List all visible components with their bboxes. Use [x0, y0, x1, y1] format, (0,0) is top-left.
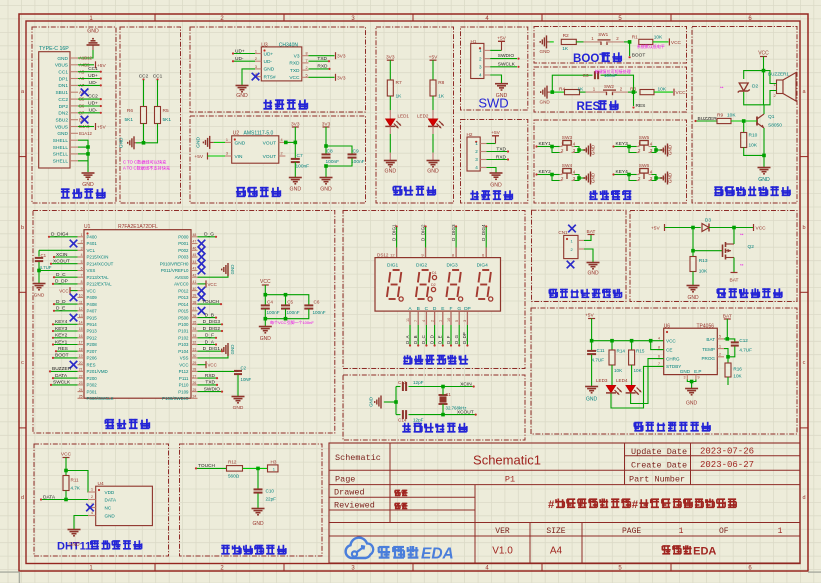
svg-text:UD-: UD-	[235, 56, 244, 62]
svg-text:CC1: CC1	[58, 70, 68, 76]
display segment pin C	[425, 311, 427, 325]
block 锂电池接口插座 border	[532, 210, 627, 301]
net label TXD (P110)	[198, 384, 217, 386]
svg-text:1: 1	[679, 527, 684, 536]
ground (CC resistors)	[127, 142, 129, 144]
svg-text:P212/EXTAL: P212/EXTAL	[87, 282, 113, 287]
block BOOT电路 border	[534, 27, 687, 64]
svg-text:GND: GND	[57, 56, 68, 62]
net label D_B (P500)	[198, 317, 216, 319]
svg-text:P001: P001	[178, 241, 189, 246]
block 供电切换电路 border	[630, 211, 797, 302]
svg-text:UD-: UD-	[89, 107, 98, 113]
net label D_C (P213)	[55, 276, 78, 278]
svg-text:C13: C13	[398, 380, 407, 385]
svg-text:按键复位可短接处理: 按键复位可短接处理	[595, 68, 631, 74]
svg-text:8: 8	[306, 52, 308, 56]
svg-text:RXD: RXD	[205, 373, 216, 379]
svg-text:P013: P013	[178, 295, 189, 300]
no-connect X (CN1 top)	[568, 225, 576, 233]
svg-text:P214/XCOUT: P214/XCOUT	[87, 261, 114, 266]
svg-text:+5V: +5V	[585, 313, 594, 319]
wire H2 pin4 to ground	[487, 168, 497, 173]
svg-text:VCC: VCC	[59, 289, 68, 294]
svg-text:Q2: Q2	[748, 244, 755, 250]
svg-text:SWCLK: SWCLK	[498, 61, 516, 67]
ground (LED1)	[384, 160, 397, 162]
svg-text:10: 10	[79, 294, 83, 298]
svg-text:DATA: DATA	[105, 498, 118, 503]
svg-text:UD+: UD+	[88, 100, 98, 106]
net label SWCLK	[490, 66, 517, 68]
label 主控电路	[105, 419, 114, 421]
svg-text:12: 12	[390, 253, 395, 258]
svg-text:SBU2: SBU2	[55, 117, 68, 123]
net RES stub	[633, 92, 635, 106]
svg-text:2: 2	[719, 353, 721, 357]
svg-text:S8050: S8050	[768, 123, 782, 129]
svg-text:46: 46	[193, 246, 197, 250]
svg-text:15: 15	[79, 327, 83, 331]
label 串口电路 (2)	[470, 193, 478, 195]
block RES电路 border	[534, 67, 687, 112]
display segment pin D	[434, 311, 436, 325]
svg-text:P408: P408	[87, 302, 98, 307]
label 锂电池接口插座	[549, 289, 557, 291]
wire D_DIG2 to display pin	[425, 227, 427, 248]
svg-text:SHELL: SHELL	[53, 138, 69, 144]
svg-text:CHRG: CHRG	[666, 356, 680, 361]
ground (C1)	[33, 283, 46, 285]
wire R2 to SW1	[576, 41, 583, 43]
svg-text:19: 19	[79, 354, 83, 358]
wire buzzer pin2	[764, 91, 777, 105]
wire LED1 to ground	[389, 127, 391, 135]
svg-text:7: 7	[414, 320, 418, 322]
svg-text:C14: C14	[398, 418, 407, 423]
no-connect X (P409)	[70, 294, 78, 302]
no-connect X (P012)	[198, 287, 206, 295]
svg-text:C2: C2	[241, 366, 247, 371]
power flag +5V (VBUS bottom)	[78, 126, 94, 128]
svg-text:SWDIO: SWDIO	[204, 386, 221, 392]
power flag VCC (U1 left)	[70, 290, 78, 292]
ground (C8 C9)	[320, 177, 333, 179]
block 电源电路 border	[32, 27, 116, 203]
svg-text:34: 34	[193, 327, 197, 331]
wire CN1 pin1 to BAT	[584, 235, 591, 241]
label 稳压电路	[236, 187, 245, 189]
net label CC1	[78, 71, 100, 73]
svg-text:GND: GND	[758, 177, 770, 183]
svg-text:P100: P100	[178, 322, 189, 327]
svg-text:GND: GND	[540, 100, 551, 105]
svg-text:C8: C8	[327, 149, 333, 155]
label 电容触摸电路	[221, 545, 229, 547]
svg-text:VBUS: VBUS	[55, 124, 68, 130]
wire decoupling top rail	[265, 295, 309, 305]
net label DATA (U1)	[54, 377, 78, 379]
ground (C10)	[252, 508, 265, 510]
svg-text:C10: C10	[266, 489, 275, 494]
wire bottom branch to C14	[396, 414, 401, 416]
svg-text:DIG3: DIG3	[446, 263, 458, 269]
svg-text:AVCC0: AVCC0	[174, 282, 189, 287]
svg-text:5K1: 5K1	[163, 117, 172, 123]
svg-text:1K: 1K	[562, 46, 569, 52]
block 极数码管显示 border	[343, 211, 525, 369]
svg-text:100nF: 100nF	[296, 164, 310, 170]
svg-text:5K1: 5K1	[124, 117, 133, 123]
colon LED DP1	[432, 275, 436, 279]
logo text 嘉立创EDA	[379, 546, 390, 548]
svg-text:SWCLK: SWCLK	[53, 380, 71, 386]
svg-text:10K: 10K	[614, 368, 623, 373]
net label UD- (U3)	[234, 60, 255, 62]
wire STDBY to LED3	[611, 366, 664, 408]
svg-text:GND: GND	[57, 131, 68, 137]
svg-text:31: 31	[193, 347, 197, 351]
zener diode D2	[739, 83, 748, 91]
svg-text:R13: R13	[699, 258, 708, 264]
ground (U4)	[68, 529, 81, 531]
net label D_DIG1 (P104)	[198, 350, 222, 352]
svg-text:14: 14	[79, 320, 83, 324]
net label BOOT (U1)	[54, 357, 78, 359]
LED2	[429, 119, 438, 126]
svg-text:R4: R4	[559, 87, 565, 93]
svg-text:40: 40	[193, 287, 197, 291]
capacitor C6 100nF	[304, 304, 313, 306]
wire P112 to C2	[198, 370, 239, 371]
svg-text:DP1: DP1	[59, 76, 69, 82]
svg-text:1: 1	[255, 50, 257, 54]
border row ticks and letters	[19, 156, 26, 158]
svg-text:12pF: 12pF	[413, 380, 424, 385]
svg-text:VCL: VCL	[87, 248, 96, 253]
no-connect X (U4 NC)	[86, 504, 94, 512]
no-connect X (P011)	[198, 267, 206, 275]
svg-text:D_DIG3: D_DIG3	[203, 319, 221, 325]
net BOOT stub	[629, 42, 631, 56]
net label BUZZER	[697, 120, 718, 122]
wire ground to junction	[550, 91, 557, 93]
net label D_DIG2 (P101)	[198, 330, 222, 332]
svg-text:+5V: +5V	[497, 36, 506, 42]
svg-text:TXD: TXD	[317, 56, 327, 62]
title block frame	[329, 443, 800, 563]
svg-text:1: 1	[475, 141, 478, 146]
svg-text:GND: GND	[686, 401, 698, 407]
wire CN1 pin2 to ground	[584, 249, 593, 262]
svg-text:U1: U1	[84, 224, 91, 230]
svg-text:KEY2: KEY2	[55, 333, 68, 339]
svg-text:GND: GND	[252, 521, 264, 527]
wire U6 GND and EP pins down	[686, 375, 688, 380]
svg-text:BUZZER: BUZZER	[52, 366, 72, 372]
svg-text:P015: P015	[178, 309, 189, 314]
svg-text:P003: P003	[178, 255, 189, 260]
svg-text:H3: H3	[271, 460, 277, 465]
svg-text:P407: P407	[87, 309, 98, 314]
wire V3 pin to 3V3 flag	[309, 55, 335, 57]
svg-text:EDA: EDA	[693, 546, 716, 558]
label 外部晶振电路	[402, 425, 410, 427]
block DHT11 border	[34, 444, 169, 556]
svg-text:BUZZER1: BUZZER1	[768, 72, 789, 77]
colon LED DP2	[431, 287, 435, 291]
net label SWDIO (P109)	[198, 391, 222, 393]
no-connect X (P001)	[198, 240, 206, 248]
MOSFET Q2	[722, 245, 724, 258]
svg-text:VCC: VCC	[87, 288, 96, 293]
svg-text:8: 8	[658, 345, 660, 349]
svg-text:DS12: DS12	[377, 253, 389, 258]
svg-text:LED1: LED1	[398, 114, 410, 119]
svg-text:41: 41	[193, 280, 197, 284]
svg-text:35: 35	[193, 320, 197, 324]
svg-text:SBU1: SBU1	[55, 90, 68, 96]
svg-text:VOUT: VOUT	[263, 141, 276, 147]
wire top branch to C13	[396, 386, 401, 388]
svg-text:100nF: 100nF	[267, 310, 280, 315]
svg-text:R11: R11	[71, 478, 80, 483]
svg-text:CC2: CC2	[88, 94, 98, 100]
block SWD border	[461, 27, 528, 110]
label 蜂鸣器驱动电路	[714, 186, 722, 188]
svg-text:A1B12: A1B12	[79, 56, 93, 61]
svg-text:P912: P912	[87, 335, 98, 340]
svg-text:VCC: VCC	[758, 51, 769, 57]
power flag +5V (H1 pin1)	[490, 49, 501, 51]
svg-text:BAT: BAT	[730, 278, 739, 284]
svg-text:GND: GND	[586, 397, 598, 403]
svg-text:E.P: E.P	[694, 369, 701, 374]
capacitor C12 4.7UF	[731, 341, 739, 343]
svg-text:VCC: VCC	[666, 339, 676, 344]
svg-text:DN1: DN1	[58, 83, 68, 89]
svg-text:18: 18	[79, 347, 83, 351]
wire D_DIG1 to display pin	[396, 227, 398, 248]
svg-text:R10: R10	[749, 133, 758, 139]
svg-text:Schematic: Schematic	[335, 453, 381, 463]
block 串口电路 border	[190, 27, 366, 112]
svg-text:c: c	[21, 360, 24, 366]
net label XCOUT (crystal)	[443, 414, 475, 416]
svg-text:10K: 10K	[699, 269, 708, 275]
svg-text:P200: P200	[87, 376, 98, 381]
svg-text:GND: GND	[119, 137, 125, 148]
svg-text:1: 1	[226, 138, 228, 142]
svg-text:H2: H2	[467, 132, 473, 137]
svg-text:4.7UF: 4.7UF	[739, 348, 752, 353]
net label D_E (P407)	[55, 310, 78, 312]
svg-text:P915: P915	[87, 315, 98, 320]
svg-text:13: 13	[79, 314, 83, 318]
capacitor C13 12pF	[402, 382, 404, 391]
block 指示电路 border	[376, 27, 454, 203]
net label SWCLK (U1)	[52, 384, 78, 386]
svg-text:3: 3	[255, 65, 257, 69]
svg-text:RXD: RXD	[289, 61, 300, 67]
resistor R2 1K	[561, 39, 576, 44]
svg-text:D_A: D_A	[205, 339, 215, 345]
power flag VCC (switch)	[753, 224, 755, 231]
svg-text:GND: GND	[34, 293, 45, 299]
svg-text:GND: GND	[290, 187, 302, 193]
svg-text:b: b	[21, 225, 24, 231]
svg-text:GND: GND	[82, 182, 94, 188]
svg-text:VCC: VCC	[208, 363, 217, 368]
diode D3	[702, 224, 709, 232]
svg-text:Update Date: Update Date	[631, 447, 687, 457]
block CC resistors border	[120, 27, 181, 203]
ground (U3)	[236, 85, 249, 87]
wire zener to emitter rail	[744, 92, 764, 105]
svg-text:5: 5	[306, 73, 308, 77]
LED3	[611, 365, 613, 385]
svg-text:GND: GND	[687, 295, 699, 301]
svg-text:11: 11	[79, 300, 83, 304]
svg-text:C9: C9	[353, 149, 359, 155]
svg-text:44: 44	[193, 260, 197, 264]
wire TEMP to R16	[724, 349, 728, 357]
svg-text:GND: GND	[230, 265, 235, 275]
wire VCC branch to VDD pin	[66, 471, 96, 493]
svg-text:D_DP: D_DP	[462, 332, 467, 344]
svg-text:GND: GND	[369, 397, 374, 407]
display segment pin E	[442, 311, 444, 325]
svg-text:39: 39	[193, 294, 197, 298]
svg-text:560Ω: 560Ω	[228, 474, 240, 479]
svg-text:D_D: D_D	[56, 299, 66, 305]
net BAT flag (switch)	[731, 272, 738, 274]
svg-text:8: 8	[81, 280, 83, 284]
svg-text:TXD: TXD	[205, 380, 215, 386]
svg-text:GND: GND	[668, 144, 673, 155]
svg-text:NC: NC	[105, 506, 112, 511]
svg-text:1K: 1K	[438, 94, 445, 100]
svg-text:XCIN: XCIN	[460, 381, 472, 387]
svg-text:P104: P104	[178, 349, 189, 354]
wire LED2 to ground	[432, 127, 434, 135]
svg-text:TOUCH: TOUCH	[198, 463, 216, 469]
net label KEY2	[54, 337, 78, 339]
svg-text:43: 43	[193, 267, 197, 271]
wire VCC junction to Q2 drain	[733, 228, 735, 245]
svg-text:R7FA2E1A72DFL: R7FA2E1A72DFL	[118, 224, 158, 230]
wire decoupling bottom rail	[265, 309, 309, 319]
svg-text:4.7K: 4.7K	[71, 486, 81, 491]
svg-text:9: 9	[698, 376, 700, 380]
label 功能按键	[589, 193, 597, 195]
no-connect X (P015)	[198, 307, 206, 315]
resistor R13 10K	[692, 251, 694, 257]
svg-text:P201/VMD: P201/VMD	[87, 369, 108, 374]
svg-text:23: 23	[79, 381, 83, 385]
power flag +5V (VBUS top)	[78, 64, 94, 66]
wire R16 bottom stub	[727, 377, 729, 385]
svg-text:P014: P014	[178, 302, 189, 307]
net label D_DP (P212)	[54, 283, 78, 285]
svg-text:100nF: 100nF	[326, 159, 340, 165]
wire Q2 source to BAT	[733, 258, 735, 273]
svg-text:系统默认低电平: 系统默认低电平	[637, 43, 665, 49]
7-seg digit 4	[482, 269, 489, 271]
resistor R10 10K	[743, 121, 745, 133]
svg-text:Page: Page	[335, 474, 355, 484]
svg-text:Q1: Q1	[768, 114, 775, 120]
svg-text:VCC: VCC	[671, 40, 682, 46]
svg-text:P400: P400	[87, 235, 98, 240]
svg-text:VCC: VCC	[179, 362, 188, 367]
net label UD+ (U3)	[234, 53, 255, 55]
wire +5V junction down to gate	[693, 228, 723, 251]
wire junction up over C3 to SW2 right junction	[552, 75, 592, 92]
svg-text:4: 4	[475, 165, 478, 170]
display segment pin A	[409, 311, 411, 325]
svg-text:P012: P012	[178, 288, 189, 293]
svg-text:SHELL: SHELL	[53, 145, 69, 151]
svg-text:P206: P206	[87, 356, 98, 361]
capacitor C5 100nF	[281, 304, 290, 306]
svg-text:P112: P112	[179, 369, 189, 374]
svg-text:D_G: D_G	[454, 334, 459, 344]
svg-text:10K: 10K	[727, 113, 736, 119]
ground (R13)	[687, 285, 700, 287]
svg-text:4.7UF: 4.7UF	[40, 265, 52, 270]
svg-text:R15: R15	[636, 349, 645, 354]
no-connect X (P915)	[70, 314, 78, 322]
net label KEY1	[54, 344, 78, 346]
net label RXD (P111)	[198, 377, 217, 379]
svg-text:R1: R1	[632, 35, 638, 41]
svg-text:+5V: +5V	[194, 154, 203, 160]
svg-text:4: 4	[281, 138, 283, 142]
svg-text:P110: P110	[179, 383, 189, 388]
ground (RES left)	[540, 91, 542, 93]
svg-text:38: 38	[193, 300, 197, 304]
wire VCC pin to 3V3 flag	[309, 76, 335, 78]
wire BAT down to U6 BAT pin and C12	[724, 319, 727, 339]
net label D_DIG3 (P100)	[198, 323, 222, 325]
svg-text:RTS#: RTS#	[264, 74, 277, 80]
svg-text:22pF: 22pF	[266, 497, 277, 502]
svg-text:VSS: VSS	[87, 268, 96, 273]
wire R8 to LED2	[432, 96, 434, 110]
label 极数码管显示	[403, 357, 411, 359]
svg-text:RES: RES	[577, 101, 601, 113]
svg-text:VCC: VCC	[260, 279, 271, 285]
svg-text:VDD: VDD	[105, 490, 115, 495]
resistor R15 10K	[631, 341, 633, 350]
svg-text:DIG4: DIG4	[477, 263, 489, 269]
net label XCOUT (U1)	[52, 263, 78, 265]
svg-text:RXD: RXD	[496, 154, 507, 160]
svg-text:P213/XTAL: P213/XTAL	[87, 275, 110, 280]
svg-text:4: 4	[479, 73, 482, 78]
net label KEY3	[54, 330, 78, 332]
ground (C11)	[585, 386, 598, 388]
svg-text:RES: RES	[58, 346, 68, 352]
display segment pin B	[417, 311, 419, 325]
svg-text:3V3: 3V3	[337, 54, 346, 60]
svg-text:GND: GND	[236, 93, 248, 99]
svg-text:VCC: VCC	[208, 282, 217, 287]
ground (VSS right)	[198, 346, 229, 358]
svg-text:+5V: +5V	[429, 55, 438, 61]
resistor R14 10K	[611, 341, 613, 350]
